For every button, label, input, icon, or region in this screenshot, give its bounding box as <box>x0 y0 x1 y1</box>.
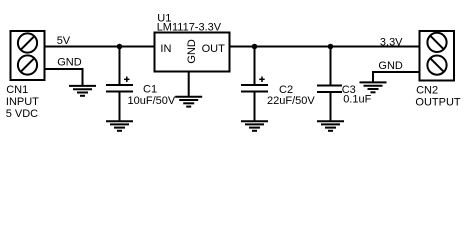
svg-text:22uF/50V: 22uF/50V <box>267 95 315 107</box>
svg-text:5V: 5V <box>57 35 71 47</box>
svg-text:OUT: OUT <box>202 43 226 55</box>
svg-text:INPUT: INPUT <box>6 96 39 108</box>
svg-text:OUTPUT: OUTPUT <box>415 96 461 108</box>
svg-text:IN: IN <box>160 43 171 55</box>
svg-text:LM1117-3.3V: LM1117-3.3V <box>157 22 222 34</box>
svg-text:3.3V: 3.3V <box>380 36 403 48</box>
svg-text:0.1uF: 0.1uF <box>343 93 371 105</box>
svg-text:CN2: CN2 <box>416 84 438 96</box>
svg-text:GND: GND <box>57 57 81 69</box>
svg-text:C1: C1 <box>143 84 157 96</box>
svg-text:5 VDC: 5 VDC <box>6 108 38 120</box>
svg-text:C2: C2 <box>279 84 293 96</box>
svg-text:10uF/50V: 10uF/50V <box>128 95 176 107</box>
svg-text:GND: GND <box>186 39 198 64</box>
svg-text:GND: GND <box>378 60 403 72</box>
svg-text:CN1: CN1 <box>6 84 28 96</box>
